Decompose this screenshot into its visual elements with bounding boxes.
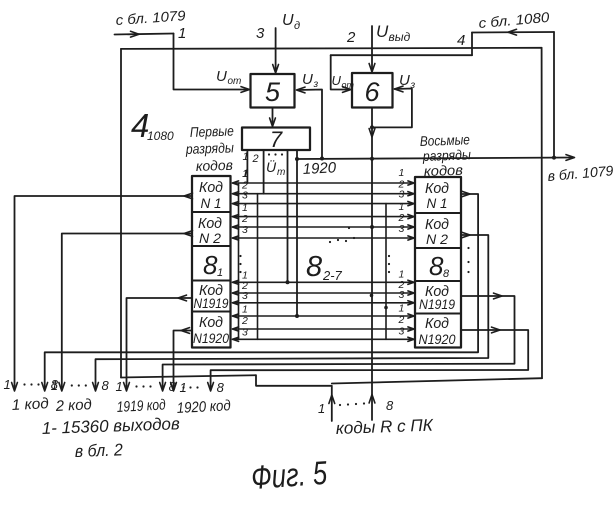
svg-text:2 код: 2 код (54, 396, 92, 415)
svg-text:N1919: N1919 (194, 295, 229, 311)
svg-text:коды R с ПК: коды R с ПК (335, 416, 434, 438)
svg-text:1: 1 (242, 304, 248, 316)
svg-text:з: з (410, 80, 416, 91)
svg-text:3: 3 (242, 190, 248, 202)
svg-text:1920 код: 1920 код (176, 397, 231, 417)
svg-text:3: 3 (399, 326, 405, 338)
svg-text:U: U (302, 71, 313, 88)
svg-text:N1919: N1919 (419, 296, 455, 312)
svg-text:8: 8 (203, 250, 218, 280)
svg-text:1: 1 (178, 25, 186, 42)
svg-text:Ü: Ü (266, 158, 277, 175)
svg-text:U: U (399, 72, 410, 89)
svg-text:2: 2 (398, 314, 405, 326)
svg-text:от: от (342, 80, 355, 90)
svg-text:Код: Код (199, 314, 223, 331)
svg-text:2: 2 (241, 315, 248, 327)
svg-text:1920: 1920 (302, 159, 337, 178)
svg-text:3: 3 (242, 327, 248, 339)
svg-text:выд: выд (389, 30, 411, 44)
svg-text:от: от (228, 76, 242, 87)
svg-text:3: 3 (242, 290, 248, 302)
svg-text:1: 1 (399, 303, 405, 315)
svg-text:7: 7 (270, 127, 283, 152)
svg-text:N1920: N1920 (193, 330, 229, 346)
svg-text:N 1: N 1 (201, 195, 222, 211)
svg-text:3: 3 (399, 189, 405, 201)
svg-text:1: 1 (51, 378, 58, 393)
svg-text:в бл. 2: в бл. 2 (74, 440, 123, 461)
svg-text:N1920: N1920 (419, 331, 456, 347)
svg-text:3: 3 (242, 224, 248, 236)
svg-text:1: 1 (399, 167, 405, 179)
svg-text:2: 2 (252, 153, 259, 165)
svg-text:Первые: Первые (190, 122, 235, 140)
svg-text:1080: 1080 (147, 129, 174, 143)
svg-text:8: 8 (169, 379, 177, 394)
svg-text:1: 1 (116, 379, 123, 394)
svg-text:1: 1 (217, 267, 223, 279)
svg-text:U: U (282, 12, 294, 29)
svg-text:U: U (332, 73, 342, 88)
svg-text:1 код: 1 код (11, 395, 49, 414)
svg-text:N 2: N 2 (199, 230, 221, 246)
svg-text:разряды: разряды (185, 139, 235, 157)
svg-text:8: 8 (443, 268, 450, 280)
svg-text:8: 8 (217, 380, 225, 395)
svg-text:6: 6 (364, 77, 380, 107)
svg-text:N 1: N 1 (427, 195, 448, 211)
svg-text:кодов: кодов (196, 157, 234, 174)
svg-text:8: 8 (102, 378, 110, 393)
svg-text:д: д (294, 20, 300, 32)
svg-text:4: 4 (457, 32, 465, 49)
svg-text:3: 3 (256, 25, 265, 42)
svg-text:Фиг. 5: Фиг. 5 (250, 454, 329, 496)
svg-text:5: 5 (265, 77, 281, 107)
svg-text:1919 код: 1919 код (116, 396, 166, 416)
svg-text:1: 1 (4, 377, 11, 392)
svg-text:8: 8 (429, 251, 444, 281)
svg-text:1: 1 (242, 168, 248, 180)
svg-text:2-7: 2-7 (322, 268, 343, 283)
svg-text:2: 2 (346, 29, 356, 46)
svg-text:8: 8 (306, 251, 322, 283)
svg-text:3: 3 (399, 223, 405, 235)
svg-text:3: 3 (399, 289, 405, 301)
svg-text:1: 1 (318, 401, 325, 416)
svg-text:Код: Код (199, 179, 223, 196)
svg-text:N 2: N 2 (426, 231, 448, 247)
svg-text:U: U (216, 68, 227, 85)
svg-text:Код: Код (425, 315, 449, 332)
svg-text:т: т (277, 167, 285, 178)
svg-text:з: з (313, 79, 319, 90)
svg-text:U: U (376, 22, 389, 41)
svg-text:8: 8 (386, 398, 394, 413)
